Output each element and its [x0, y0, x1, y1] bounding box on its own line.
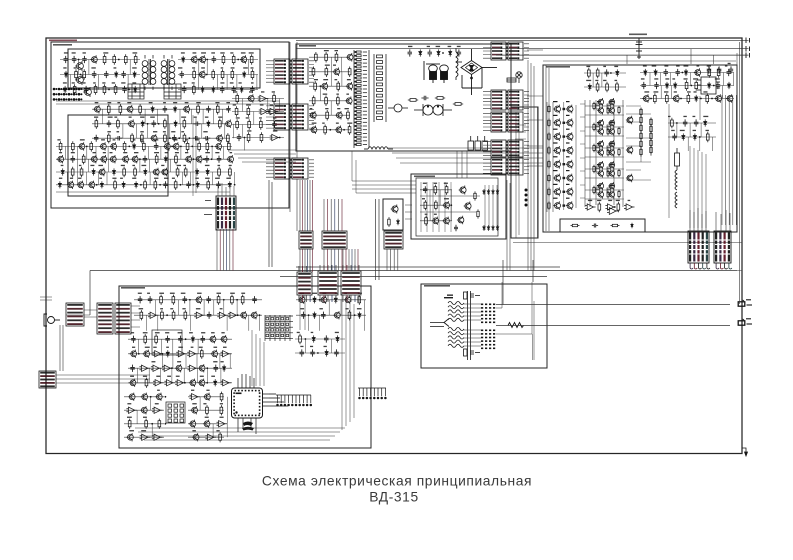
- resistor R87: [453, 103, 463, 106]
- label text value mark: [213, 361, 217, 362]
- wire: [334, 249, 336, 271]
- capacitor C19: [152, 120, 157, 127]
- wire: [302, 180, 304, 231]
- wire: [299, 180, 301, 231]
- resistor R157: [184, 310, 187, 320]
- wire: [585, 189, 624, 191]
- resistor R130: [640, 139, 642, 148]
- wire: [721, 95, 723, 225]
- node junction: [184, 382, 186, 384]
- transistor VT58: [553, 132, 560, 141]
- diode VD7: [243, 71, 246, 78]
- op-amp DA23: [175, 380, 186, 386]
- transistor VT2: [75, 75, 83, 85]
- resistor R19: [193, 84, 196, 94]
- wire: [507, 180, 510, 271]
- wire: [650, 118, 652, 156]
- block A1 inner sub-board 2 outline: [68, 115, 168, 196]
- node junction: [138, 353, 140, 355]
- label text value mark: [129, 430, 134, 431]
- label text value mark: [444, 198, 449, 199]
- diode VD31: [437, 49, 440, 56]
- transistor VT120: [203, 393, 210, 401]
- resistor R78: [312, 96, 315, 107]
- resistor R84: [348, 125, 351, 135]
- capacitor C34: [186, 181, 191, 188]
- label text value mark: [79, 165, 82, 166]
- wire: [198, 60, 200, 75]
- resistor R82: [347, 110, 350, 121]
- label text net name above border: [629, 34, 647, 36]
- wire: [56, 158, 232, 160]
- wire: [189, 300, 191, 315]
- resistor R8: [94, 84, 97, 94]
- wire: [309, 100, 350, 102]
- capacitor C56: [138, 296, 143, 303]
- wire: [304, 339, 306, 353]
- wire: [584, 86, 626, 88]
- label text stage mark: [553, 156, 558, 157]
- node junction: [180, 146, 182, 148]
- capacitor C24: [193, 136, 200, 141]
- label text value mark: [324, 346, 327, 347]
- wire: [732, 73, 734, 86]
- resistor R131: [640, 147, 642, 156]
- diode VD66: [325, 349, 328, 356]
- transistor VT34: [161, 168, 168, 176]
- node junction pair: [563, 163, 566, 165]
- label text value mark: [121, 165, 125, 166]
- label text value mark: [163, 102, 166, 103]
- wire: [160, 146, 162, 159]
- node junction: [206, 74, 208, 76]
- resistor R61: [176, 167, 179, 177]
- label text value mark: [333, 65, 336, 66]
- resistor R97: [548, 118, 550, 127]
- label text value mark: [140, 139, 143, 140]
- label text A3 title: [414, 176, 435, 178]
- diode VD25: [100, 181, 103, 188]
- label text value mark: [427, 46, 430, 47]
- label text cable mark: [444, 297, 453, 298]
- wire: [690, 146, 706, 228]
- capacitor C20: [193, 122, 200, 127]
- wire: [439, 190, 441, 205]
- wire: [217, 75, 219, 90]
- wire: [90, 270, 737, 272]
- wire: [60, 74, 140, 76]
- transistor VT9: [93, 105, 100, 114]
- label text value mark: [154, 139, 158, 140]
- transistor VT48: [443, 201, 450, 209]
- resistor R65: [114, 180, 117, 190]
- module U1 opto-isolator outline: [383, 199, 403, 230]
- diode VD26: [122, 181, 125, 188]
- label text value mark: [665, 78, 669, 79]
- capacitor C55: [592, 224, 598, 228]
- label text value mark: [715, 78, 720, 79]
- wire: [668, 136, 716, 138]
- resistor R163: [145, 378, 148, 388]
- wire: [76, 172, 78, 185]
- transistor VT116: [141, 393, 148, 401]
- resistor R52 sense: [675, 148, 680, 170]
- resistor R139: [685, 80, 688, 90]
- diode VD46: [684, 69, 687, 76]
- transistor VT5: [190, 55, 197, 63]
- resistor R4: [134, 54, 137, 64]
- wire: [178, 74, 258, 76]
- terminal XT2 socket: [738, 300, 752, 306]
- resistor R18: [251, 69, 254, 79]
- label text stage mark: [553, 115, 558, 116]
- connector X29 input: [97, 303, 113, 334]
- wire: [585, 168, 624, 170]
- transistor VT112: [129, 379, 136, 387]
- label text value mark: [99, 178, 102, 179]
- label text value mark: [457, 46, 461, 47]
- capacitor C32: [217, 156, 222, 163]
- transistor VT96: [715, 94, 722, 102]
- wire: [232, 111, 284, 113]
- label text value mark: [177, 165, 181, 166]
- resistor R108: [616, 82, 619, 92]
- label text value mark: [201, 332, 205, 333]
- diode VD34: [483, 189, 486, 195]
- capacitor C10: [180, 71, 184, 78]
- wire: [134, 299, 262, 301]
- label text value mark: [157, 390, 160, 391]
- capacitor C43: [664, 69, 669, 76]
- wire: [234, 172, 236, 185]
- node junction: [162, 353, 164, 355]
- transistor VT119: [126, 433, 133, 441]
- relay K1 contact group: [468, 136, 488, 150]
- transistor VT4: [90, 55, 97, 63]
- label text value mark: [239, 82, 242, 83]
- resistor R142: [666, 93, 669, 103]
- label text value mark: [132, 82, 136, 83]
- wire: [211, 146, 213, 159]
- resistor R73: [312, 67, 315, 78]
- label text group mark: [597, 185, 601, 186]
- node junction pair: [563, 135, 566, 137]
- label text value mark: [93, 152, 96, 153]
- wire: [87, 159, 89, 172]
- capacitor C54: [672, 133, 677, 140]
- terminal tick group top-right: [746, 38, 750, 59]
- diode VD65: [336, 335, 339, 342]
- resistor R165: [128, 419, 131, 429]
- op-amp DA7: [624, 204, 635, 210]
- wire: [323, 199, 325, 231]
- antenna stub top-middle: [636, 39, 643, 60]
- capacitor C17: [226, 106, 231, 113]
- transistor VT99: [240, 311, 247, 319]
- resistor R132: [650, 118, 652, 127]
- op-amp DA4: [270, 134, 281, 140]
- node junction: [713, 85, 715, 87]
- wire: [364, 315, 366, 331]
- label text value mark: [616, 200, 620, 201]
- wire: [496, 282, 534, 360]
- label text value mark: [312, 293, 317, 294]
- label text value mark: [163, 131, 166, 132]
- wire: [188, 396, 224, 398]
- label text value mark: [193, 52, 197, 53]
- wire: [737, 243, 742, 271]
- op-amp DA11: [217, 312, 228, 318]
- diode VD37: [496, 189, 499, 195]
- wire: [307, 180, 309, 231]
- label text value mark: [164, 178, 169, 179]
- wire: [204, 201, 212, 215]
- label text value mark: [249, 52, 254, 53]
- transistor VT40: [321, 82, 328, 91]
- wire: [330, 249, 332, 271]
- label text value mark: [230, 152, 233, 153]
- wire: [181, 172, 183, 185]
- op-amp DA9: [148, 312, 159, 318]
- label text value mark: [175, 152, 179, 153]
- capacitor C36: [408, 49, 413, 56]
- wire: [363, 300, 365, 315]
- capacitor C15: [163, 106, 167, 113]
- capacitor C40: [423, 186, 428, 193]
- wire: [180, 146, 182, 159]
- capacitor C14: [250, 86, 255, 93]
- label text value mark: [408, 46, 412, 47]
- resistor R51: [198, 141, 201, 151]
- wire: [230, 150, 296, 162]
- wire: [216, 229, 218, 271]
- block A1 inner sub-board 1 outline: [68, 49, 260, 88]
- diode VD14: [174, 120, 177, 127]
- resistor R160: [144, 334, 147, 344]
- winding hatch mark: [596, 104, 610, 109]
- label text value mark: [220, 417, 224, 418]
- resistor R57: [71, 167, 74, 177]
- label text value mark: [220, 52, 224, 53]
- wire: [172, 354, 174, 368]
- op-amp DA17: [139, 365, 150, 371]
- label text value mark: [127, 417, 132, 418]
- wire: [337, 249, 339, 271]
- wire: [640, 85, 734, 87]
- resistor R13: [250, 54, 253, 64]
- label text value mark: [628, 200, 631, 201]
- node junction: [171, 367, 173, 369]
- node junction: [165, 396, 167, 398]
- label text value mark: [347, 79, 351, 80]
- transistor VT95: [672, 94, 679, 102]
- label text value mark: [132, 165, 135, 166]
- wire: [226, 410, 228, 424]
- transistor VT82: [597, 161, 604, 169]
- resistor R91: [424, 200, 427, 210]
- transistor VT52: [464, 202, 471, 211]
- wire: [188, 409, 224, 411]
- wire: [144, 109, 146, 124]
- transistor VT42: [345, 97, 352, 106]
- transistor VT1: [75, 61, 83, 71]
- wire: [330, 57, 332, 72]
- node junction: [206, 382, 208, 384]
- transistor VT104: [333, 311, 340, 319]
- wire: [420, 220, 452, 222]
- transistor VT10: [126, 105, 133, 114]
- wire: [92, 137, 230, 139]
- wire: [183, 368, 185, 383]
- label text value mark: [652, 65, 657, 66]
- capacitor C62: [301, 312, 306, 319]
- transistor VT72: [597, 107, 604, 115]
- node junction pair: [563, 149, 566, 151]
- wire: [229, 354, 231, 368]
- diode VD43: [588, 83, 591, 90]
- label text value mark: [112, 178, 116, 179]
- label text value mark: [195, 178, 199, 179]
- label text value mark: [230, 293, 235, 294]
- crystal ZQ1 dark glyph: [242, 422, 254, 431]
- resistor R145: [671, 118, 674, 128]
- transistor VT28: [131, 155, 138, 163]
- wire: [128, 367, 232, 369]
- node junction: [189, 299, 191, 301]
- wire: [671, 86, 673, 99]
- node junction: [128, 89, 130, 91]
- label text value mark: [220, 308, 223, 309]
- resistor R107: [606, 82, 609, 92]
- wire: [222, 229, 224, 271]
- resistor R30: [107, 133, 110, 143]
- resistor R15: [212, 69, 215, 79]
- capacitor C51: [729, 66, 733, 73]
- diode VD35: [487, 189, 490, 195]
- resistor R171: [219, 432, 222, 442]
- wire: [197, 339, 199, 354]
- wire: [319, 86, 321, 101]
- block A4 output board outline: [543, 65, 737, 232]
- wire: [124, 436, 164, 438]
- wire: [386, 249, 388, 271]
- connector X31 aux: [39, 371, 56, 388]
- op-amp DA31: [205, 434, 216, 440]
- label text value mark: [149, 102, 153, 103]
- label text value mark: [246, 117, 250, 118]
- capacitor C4: [92, 71, 97, 78]
- wire: [146, 315, 148, 331]
- label text value mark: [434, 214, 437, 215]
- resistor R118: [593, 165, 595, 173]
- label text value mark: [672, 78, 675, 79]
- wire: [56, 171, 232, 173]
- transistor VT78: [597, 140, 604, 148]
- wire: [108, 159, 110, 172]
- op-amp DA19: [162, 365, 173, 371]
- resistor R129: [640, 131, 642, 140]
- resistor R110: [618, 106, 620, 114]
- label text value mark: [603, 80, 606, 81]
- node junction pair: [563, 191, 566, 193]
- transistor VT54: [553, 105, 560, 114]
- op-amp DA24: [221, 380, 232, 386]
- corner ground symbol bottom-right: [742, 448, 748, 456]
- resistor R20: [107, 104, 110, 115]
- label text value mark: [676, 65, 680, 66]
- inductor L3 winding column: [675, 192, 677, 208]
- resistor R154: [140, 310, 143, 320]
- wire: [341, 57, 343, 72]
- label text value mark: [165, 152, 168, 153]
- resistor R1: [103, 54, 106, 64]
- wire: [171, 368, 173, 383]
- wire: [224, 124, 226, 138]
- resistor R36: [236, 93, 239, 103]
- wire: [259, 315, 261, 331]
- node junction: [108, 89, 110, 91]
- resistor R126: [640, 108, 642, 117]
- label text value mark: [680, 130, 685, 131]
- transistor VT29: [185, 155, 192, 163]
- resistor R133: [650, 125, 652, 134]
- transistor VT35: [67, 181, 74, 189]
- label text value mark: [230, 82, 234, 83]
- label text value mark: [251, 82, 254, 83]
- block A2 right bay outline: [511, 107, 538, 238]
- resistor R50: [186, 141, 189, 151]
- label text value mark: [78, 178, 81, 179]
- twisted pair cable W1 upper group: [448, 301, 464, 321]
- transistor VT22: [215, 142, 222, 150]
- label text value mark: [310, 108, 313, 109]
- capacitor C33: [163, 181, 168, 188]
- resistor R60 zigzag: [508, 323, 524, 328]
- node junction: [139, 158, 141, 160]
- diode VD20: [112, 168, 115, 175]
- label text value mark: [444, 183, 448, 184]
- node junction: [329, 129, 331, 131]
- label text value mark: [127, 403, 131, 404]
- wire: [190, 315, 192, 331]
- label text value mark: [259, 117, 262, 118]
- label text value mark: [664, 65, 668, 66]
- wire: [585, 177, 624, 179]
- transistor VT108: [143, 350, 150, 358]
- resistor R56: [175, 154, 178, 164]
- node junction: [680, 98, 682, 100]
- op-amp DA25: [126, 407, 136, 413]
- label text value mark: [229, 165, 232, 166]
- label text value mark: [171, 131, 175, 132]
- resistor R63: [218, 167, 221, 177]
- node junction: [206, 367, 208, 369]
- diode VD24: [58, 181, 61, 188]
- label text value mark: [203, 403, 206, 404]
- resistor R11: [222, 54, 225, 64]
- transistor VT59: [566, 132, 573, 141]
- label text value mark: [217, 293, 222, 294]
- wire: [585, 114, 624, 116]
- label text value mark: [218, 165, 221, 166]
- label text value mark: [103, 52, 108, 53]
- capacitor C44: [676, 69, 680, 76]
- wire: [201, 124, 203, 138]
- label text value mark: [335, 79, 338, 80]
- wire: [148, 146, 150, 159]
- wire: [732, 95, 734, 225]
- diode VD21: [144, 168, 147, 175]
